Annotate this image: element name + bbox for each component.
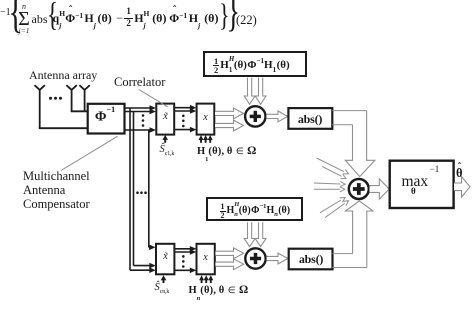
label H_n(theta), theta in Omega: [189, 285, 249, 299]
pointer line from Multichannel label: [61, 136, 118, 170]
steering vector arrows H_1: [200, 139, 202, 143]
weight box top: 1/2 H1^H(theta) Phi^-1 H1(theta): [203, 51, 307, 77]
abs box (bottom branch): [289, 249, 333, 270]
multichannel antenna compensator box (Phi^-1): [88, 104, 125, 134]
wire antenna2 to compensator: [71, 110, 89, 112]
label Antenna array: [29, 69, 97, 81]
label Multichannel Antenna Compensator: [23, 169, 90, 211]
reference signal arrow S_c1,k: [164, 139, 166, 143]
hollow arrow correlator to adder1 (lower): [215, 120, 243, 131]
label S_c1,k: [160, 145, 175, 157]
x glyph in top integrator box: [197, 113, 214, 123]
correlator multiplier box x~ (top): [156, 104, 174, 135]
adder circle 2 (bottom branch): [245, 248, 265, 268]
hollow arrow weight to adder2 (right): [255, 222, 266, 246]
pointer line from Correlator label: [139, 90, 168, 107]
wire box1-box2 bottom: [174, 129, 192, 131]
hollow arrow weight to adder1 (right): [255, 78, 266, 105]
summation with limits: [18, 3, 31, 34]
wire antenna1 to compensator: [39, 127, 89, 129]
label S_cn,k: [155, 283, 170, 295]
label theta-hat output: [456, 167, 463, 180]
math run: absolutely positioned tokens: [53, 12, 66, 24]
wire antenna2 stem: [71, 89, 73, 111]
hollow arrow correlator to adder1 (upper): [215, 108, 243, 119]
vertical dots between compensator and correlator: [142, 114, 145, 117]
hollow arrow adder2 to abs2: [267, 253, 288, 264]
antenna 2: [66, 85, 76, 90]
wire antenna1 stem: [39, 89, 41, 128]
label H_1(theta), theta in Omega: [197, 146, 256, 160]
wire box1b-box2b bottom: [174, 269, 192, 271]
wire abs2 top output: [333, 253, 353, 255]
wire vertical tap V2 (line B down to bottom correlator): [133, 112, 135, 266]
wire abs1 bottom output: [332, 124, 352, 126]
wire vertical tap V3 (line C down to bottom correlator): [148, 130, 150, 247]
wire channel line B: [125, 111, 152, 113]
wire box1b-box2b top b: [174, 251, 192, 253]
x~ glyph in top correlator box: [157, 112, 174, 122]
Phi^-1 text in compensator box: [87, 109, 123, 125]
outer left brace: [9, 0, 23, 36]
wire abs2 bottom output: [333, 267, 367, 269]
abs() text bottom: [289, 253, 333, 265]
antenna 3: [79, 85, 89, 90]
hollow arrow weight to adder1 (left): [244, 78, 255, 105]
hollow arrow max box output theta-hat: [454, 177, 470, 198]
reference signal arrow S_cn,k: [163, 279, 165, 283]
x~ glyph in bottom correlator box: [157, 252, 174, 262]
equation (22) at top: [0, 8, 11, 18]
max^-1 theta text: [402, 173, 440, 190]
max^-1 box: [390, 161, 454, 208]
wire channel line A: [125, 107, 152, 109]
weight box bottom: 1/2 Hn^H(theta) Phi^-1 Hn(theta): [206, 197, 303, 221]
hollow block arrow abs2 lines into big adder (up): [346, 201, 374, 268]
label Correlator: [114, 76, 165, 89]
hollow arrow adder1 to abs1: [266, 111, 287, 122]
vertical dots between correlator boxes (top row): [182, 115, 185, 118]
abs() text top: [288, 113, 332, 125]
adder circle 1 (top branch): [245, 106, 265, 126]
vertical dots between correlator boxes (bottom row): [182, 255, 185, 258]
hollow arrow big adder to max box: [370, 179, 390, 199]
x glyph in bottom integrator box: [197, 253, 214, 263]
integrator box x (bottom): [197, 244, 215, 274]
wire box1b-box2b top a: [174, 248, 192, 250]
wire box1-box2 top b: [174, 110, 192, 112]
correlator multiplier box x~ (bottom): [156, 244, 174, 274]
integrator box x (top): [197, 104, 215, 135]
hollow arrow correlator to adder2 (lower): [215, 259, 243, 270]
wire channel line C: [125, 129, 152, 131]
hollow arrow weight to adder2 (left): [244, 222, 255, 246]
antenna 1: [35, 85, 45, 90]
steering vector arrows H_n: [201, 279, 203, 283]
closing braces: [219, 0, 230, 31]
big adder circle (sum over channels): [349, 179, 369, 199]
ellipsis between antenna 1 and antenna 2: [49, 97, 52, 100]
hollow arrow correlator to adder2 (upper): [215, 248, 243, 259]
wire box1-box2 top a: [174, 107, 192, 109]
wire antenna3 stem: [84, 89, 86, 112]
hollow block arrow abs1 lines into big adder (down): [345, 111, 375, 177]
wire vertical tap V1 (line A down to bottom correlator): [129, 108, 131, 270]
abs box (top branch): [288, 108, 332, 129]
horizontal dots between vertical taps: [136, 191, 139, 194]
inner left brace: [47, 0, 58, 32]
wire abs1 top output: [332, 110, 366, 112]
thin channel arrows into big adder: [317, 158, 347, 173]
